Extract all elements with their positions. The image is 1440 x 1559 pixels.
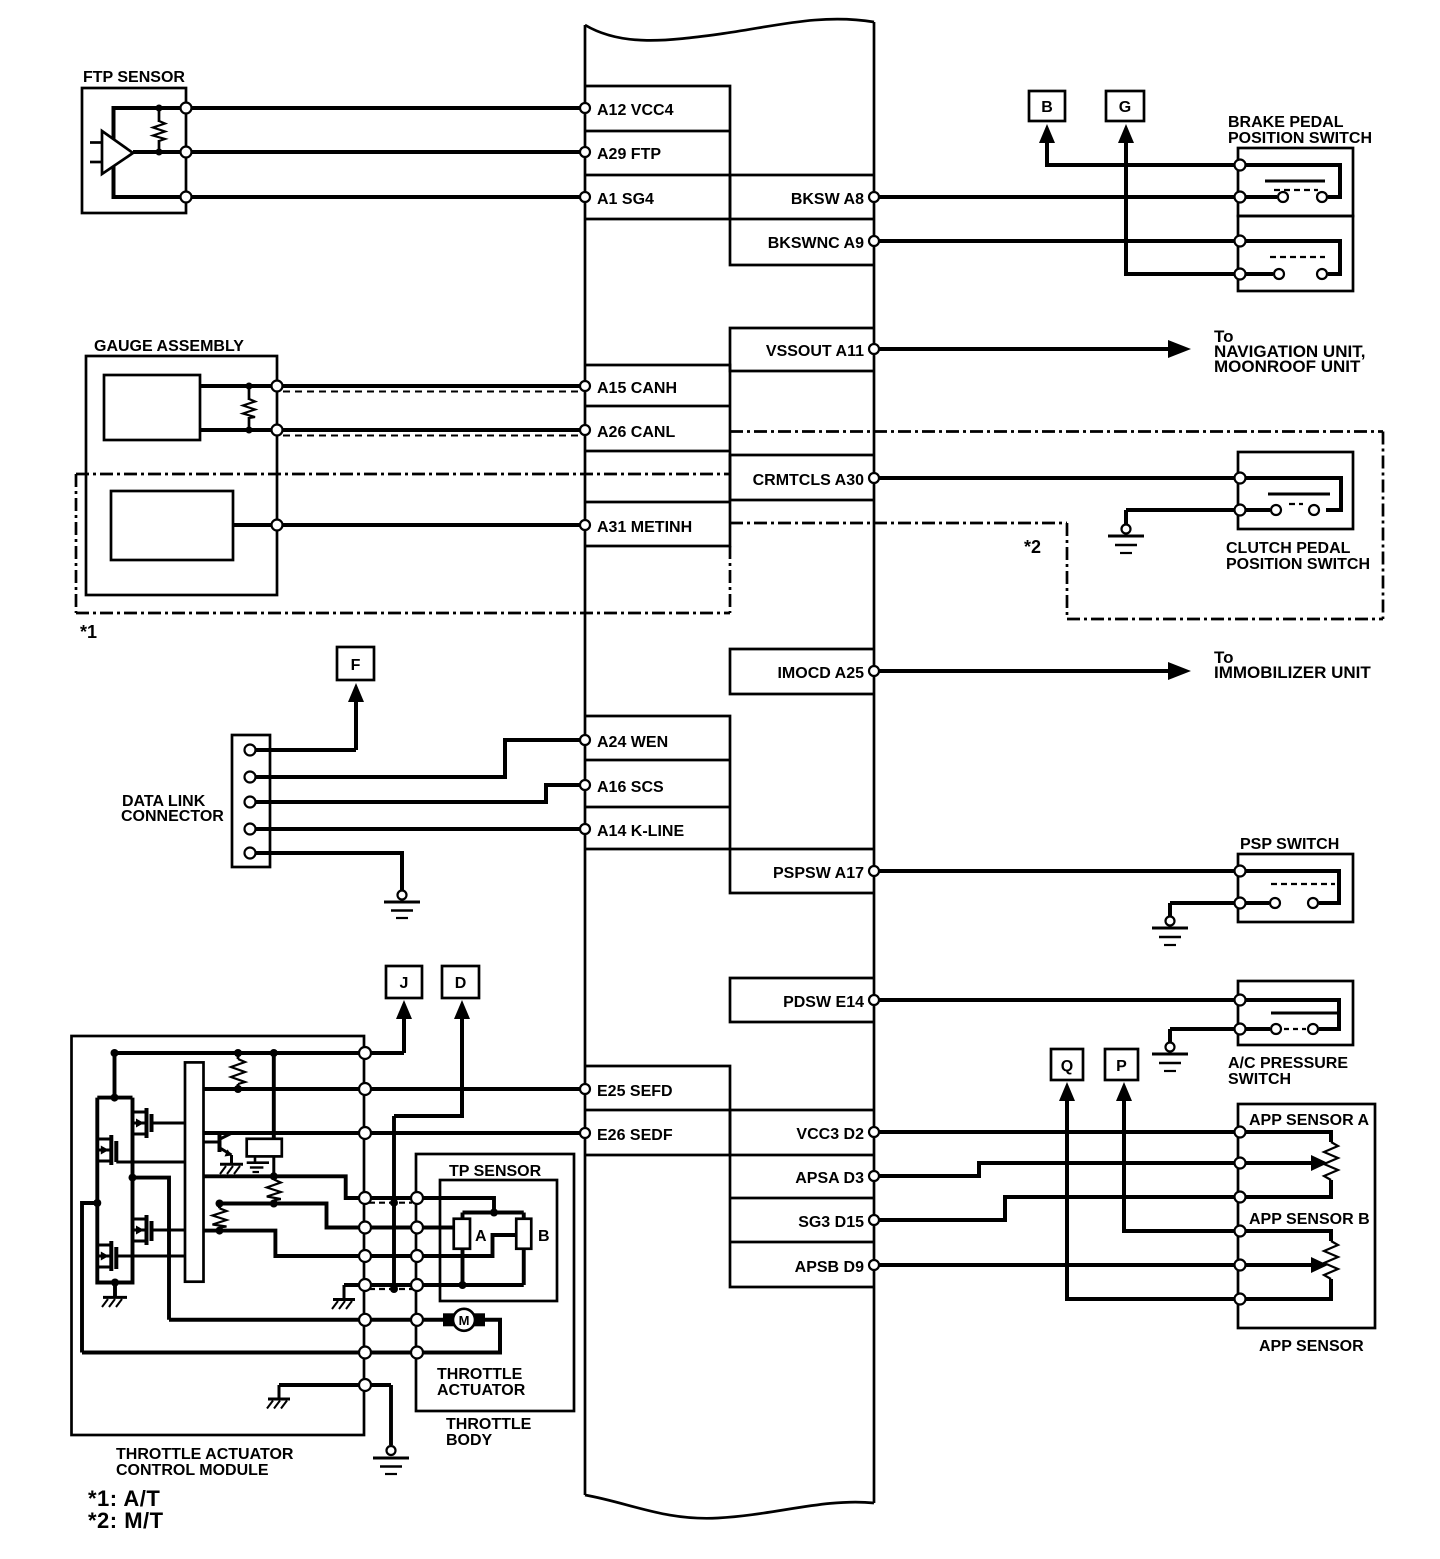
svg-text:APP SENSOR A: APP SENSOR A	[1249, 1112, 1369, 1129]
svg-text:IMMOBILIZER UNIT: IMMOBILIZER UNIT	[1214, 663, 1371, 682]
svg-text:D: D	[455, 975, 467, 992]
svg-text:CONNECTOR: CONNECTOR	[121, 808, 224, 825]
svg-text:MOONROOF UNIT: MOONROOF UNIT	[1214, 357, 1361, 376]
svg-text:A12 VCC4: A12 VCC4	[597, 102, 674, 119]
svg-text:B: B	[1041, 99, 1053, 116]
svg-text:PDSW E14: PDSW E14	[783, 994, 864, 1011]
svg-text:BRAKE PEDAL: BRAKE PEDAL	[1228, 114, 1344, 131]
svg-text:A26 CANL: A26 CANL	[597, 424, 675, 441]
svg-text:APP SENSOR: APP SENSOR	[1259, 1338, 1364, 1355]
svg-text:B: B	[538, 1228, 550, 1245]
svg-text:P: P	[1116, 1058, 1127, 1075]
svg-text:VCC3 D2: VCC3 D2	[796, 1126, 864, 1143]
svg-text:BODY: BODY	[446, 1432, 493, 1449]
svg-text:TP SENSOR: TP SENSOR	[449, 1163, 542, 1180]
svg-text:A: A	[475, 1228, 487, 1245]
svg-text:*2: M/T: *2: M/T	[88, 1508, 164, 1533]
svg-text:E26 SEDF: E26 SEDF	[597, 1127, 673, 1144]
svg-text:A31 METINH: A31 METINH	[597, 519, 692, 536]
svg-text:PSP SWITCH: PSP SWITCH	[1240, 836, 1339, 853]
svg-text:A16 SCS: A16 SCS	[597, 779, 664, 796]
svg-text:BKSW A8: BKSW A8	[791, 191, 864, 208]
svg-text:IMOCD A25: IMOCD A25	[777, 665, 864, 682]
svg-text:*1: *1	[80, 622, 97, 642]
svg-text:E25 SEFD: E25 SEFD	[597, 1083, 673, 1100]
svg-text:*2: *2	[1024, 537, 1041, 557]
svg-text:BKSWNC A9: BKSWNC A9	[768, 235, 864, 252]
svg-text:CRMTCLS A30: CRMTCLS A30	[753, 472, 865, 489]
svg-text:THROTTLE ACTUATOR: THROTTLE ACTUATOR	[116, 1446, 294, 1463]
svg-text:F: F	[351, 657, 361, 674]
svg-text:GAUGE ASSEMBLY: GAUGE ASSEMBLY	[94, 338, 244, 355]
svg-text:A/C PRESSURE: A/C PRESSURE	[1228, 1055, 1348, 1072]
svg-text:CONTROL MODULE: CONTROL MODULE	[116, 1462, 269, 1479]
svg-text:POSITION SWITCH: POSITION SWITCH	[1228, 130, 1372, 147]
svg-text:G: G	[1119, 99, 1131, 116]
svg-text:A14 K-LINE: A14 K-LINE	[597, 823, 684, 840]
svg-text:ACTUATOR: ACTUATOR	[437, 1382, 526, 1399]
svg-text:A29 FTP: A29 FTP	[597, 146, 661, 163]
svg-text:A15 CANH: A15 CANH	[597, 380, 677, 397]
svg-text:J: J	[400, 975, 409, 992]
svg-text:SWITCH: SWITCH	[1228, 1071, 1291, 1088]
svg-text:THROTTLE: THROTTLE	[446, 1416, 532, 1433]
svg-text:CLUTCH PEDAL: CLUTCH PEDAL	[1226, 540, 1351, 557]
svg-text:THROTTLE: THROTTLE	[437, 1366, 523, 1383]
svg-text:SG3 D15: SG3 D15	[798, 1214, 864, 1231]
svg-text:APP SENSOR B: APP SENSOR B	[1249, 1211, 1370, 1228]
svg-text:A24 WEN: A24 WEN	[597, 734, 668, 751]
svg-text:PSPSW A17: PSPSW A17	[773, 865, 864, 882]
svg-text:Q: Q	[1061, 1058, 1073, 1075]
svg-text:FTP SENSOR: FTP SENSOR	[83, 69, 185, 86]
svg-text:VSSOUT A11: VSSOUT A11	[766, 343, 864, 360]
svg-text:APSA D3: APSA D3	[795, 1170, 864, 1187]
svg-text:POSITION SWITCH: POSITION SWITCH	[1226, 556, 1370, 573]
svg-text:APSB D9: APSB D9	[795, 1259, 864, 1276]
svg-text:A1 SG4: A1 SG4	[597, 191, 654, 208]
svg-text:M: M	[459, 1313, 470, 1328]
